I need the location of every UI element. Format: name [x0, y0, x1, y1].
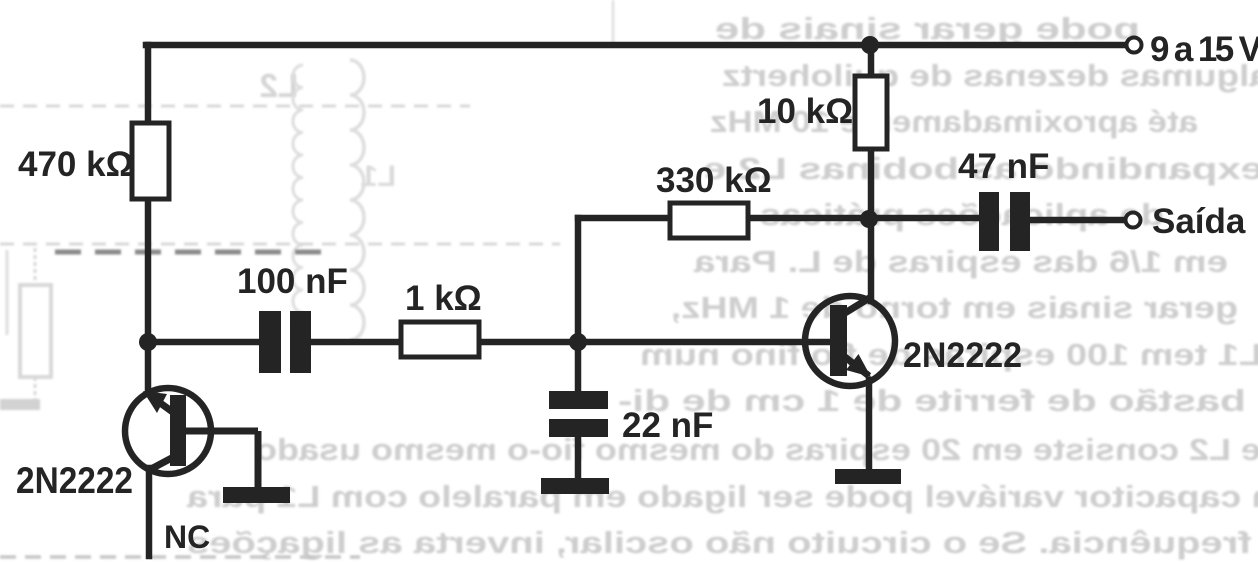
- svg-text:2N2222: 2N2222: [16, 460, 133, 501]
- resistor R1 470k: [132, 123, 169, 199]
- ground Q1 base: [223, 487, 290, 503]
- bleed dashed line top: [0, 105, 470, 108]
- svg-text:de aplicações práticas L: de aplicações práticas L: [726, 197, 1164, 232]
- terminal Saida: [1126, 213, 1141, 228]
- svg-text:1 kΩ: 1 kΩ: [405, 279, 482, 318]
- wire node up to R3 level: [575, 218, 582, 342]
- resistor R4 10k: [855, 76, 887, 149]
- wire node to C1: [148, 339, 260, 346]
- svg-text:e L2 consiste em 20 espiras do: e L2 consiste em 20 espiras do mesmo fio…: [255, 432, 1258, 467]
- resistor R2 1k: [401, 322, 479, 357]
- svg-text:m capacitor variável pode ser: m capacitor variável pode ser ligado em …: [186, 479, 1258, 514]
- wire Q2 emitter to ground: [866, 380, 873, 470]
- svg-text:NC: NC: [164, 519, 210, 555]
- terminal 9 a 15 V: [1127, 38, 1142, 53]
- bleed coil right: [350, 60, 364, 340]
- bleed dashed line bottom: [0, 555, 360, 559]
- capacitor C1 100nF: [259, 311, 311, 373]
- svg-text:330 kΩ: 330 kΩ: [656, 161, 772, 200]
- svg-text:Saída: Saída: [1152, 202, 1246, 241]
- svg-text:pode gerar sinais de: pode gerar sinais de: [715, 11, 1140, 46]
- svg-text:a frequência. Se o circuito nã: a frequência. Se o circuito não oscilar,…: [187, 525, 1258, 560]
- node rail junction: [861, 36, 879, 54]
- transistor Q2 2N2222: [805, 296, 895, 386]
- wire Q1 collector NC lead: [146, 468, 153, 556]
- node R3/R4/C3 junction: [860, 210, 878, 228]
- wire rail to R1 top: [145, 45, 152, 124]
- bleed resistor outline: [20, 285, 51, 377]
- svg-text:9 a 15 V: 9 a 15 V: [1150, 30, 1258, 69]
- wire R3 right to C3: [747, 215, 980, 222]
- capacitor C2 22nF: [549, 391, 608, 437]
- wire R4 bottom to Q2 collector: [868, 148, 875, 301]
- crease top center: [612, 0, 615, 46]
- wire C3 to Saida terminal: [1030, 217, 1125, 224]
- wire C1 to R2: [311, 339, 403, 346]
- node Q1 base junction: [139, 333, 157, 351]
- capacitor C3 47nF: [979, 192, 1030, 251]
- wire V+ rail: [146, 42, 1126, 49]
- bleed dashed line middle: [0, 243, 560, 246]
- wire R2 to Q2 base: [478, 339, 828, 346]
- svg-text:100 nF: 100 nF: [237, 262, 348, 301]
- svg-text:470 kΩ: 470 kΩ: [18, 145, 134, 184]
- ground C2: [541, 478, 609, 494]
- svg-text:gerar sinais em torno de 1 MHz: gerar sinais em torno de 1 MHz,: [671, 290, 1238, 325]
- wire to R3 left: [578, 215, 672, 222]
- node Q2 base junction: [569, 333, 587, 351]
- wire C2 bottom to ground: [575, 436, 582, 480]
- svg-text:47 nF: 47 nF: [958, 147, 1049, 186]
- bleed dashed dark fragment: [55, 250, 335, 255]
- svg-text:L1: L1: [361, 160, 396, 193]
- wire node to C2 top: [575, 342, 582, 392]
- bleed coil left: [293, 65, 303, 335]
- svg-text:10 kΩ: 10 kΩ: [757, 92, 853, 131]
- ground Q2 emitter: [835, 469, 901, 484]
- svg-text:22 nF: 22 nF: [622, 406, 713, 445]
- svg-text:em 1/6 das espiras de L. Para: em 1/6 das espiras de L. Para: [693, 244, 1228, 279]
- wire R1 bottom to Q1 emitter: [145, 198, 152, 392]
- svg-text:2N2222: 2N2222: [903, 336, 1022, 375]
- wire rail to R4 top: [868, 45, 875, 78]
- transistor Q1 2N2222: [125, 388, 258, 487]
- resistor R3 330k: [670, 203, 748, 238]
